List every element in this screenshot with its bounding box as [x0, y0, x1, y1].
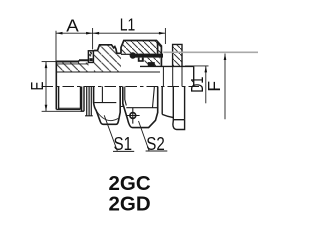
o-ring dot [130, 52, 136, 58]
thread bottom view [56, 87, 84, 112]
dimension D1 [185, 66, 209, 103]
locknut S2 section hatch [121, 41, 161, 54]
hex S2 bottom view [123, 87, 158, 128]
washer section outline [173, 44, 182, 66]
stud thread boundary [163, 66, 182, 86]
hex S1 chamfer arc [97, 112, 119, 121]
hex S2 face edges [125, 87, 158, 108]
underline S1 [113, 150, 134, 152]
dimension L1 [93, 28, 166, 44]
centerline [42, 86, 200, 88]
body section outline [94, 45, 121, 54]
o-ring bottom view [173, 120, 185, 130]
svg-text:A: A [66, 16, 79, 36]
washer section hatch [173, 44, 182, 66]
left thread section outline [56, 60, 88, 61]
groove between hexes [120, 87, 123, 107]
locknut S2 outline [121, 41, 161, 67]
leader S2 [139, 121, 150, 151]
svg-text:F: F [204, 81, 224, 92]
stud right face [193, 66, 195, 86]
svg-text:L1: L1 [120, 15, 136, 35]
hex S1 face edge [94, 87, 116, 103]
body section hatch [94, 45, 121, 72]
svg-text:E: E [27, 82, 47, 91]
dimension F [224, 54, 226, 120]
stud thread top line [140, 65, 194, 67]
thread root line [57, 63, 88, 65]
clearance step [138, 58, 144, 62]
thread root bottom line [59, 107, 81, 109]
svg-text:S1: S1 [114, 133, 133, 154]
washer bottom view [162, 87, 184, 120]
leader S1 [104, 115, 117, 151]
left thread wall hatch [56, 63, 88, 73]
dimension E [42, 62, 83, 112]
dimension A [56, 28, 93, 62]
orientation mark [130, 113, 136, 119]
svg-text:2GD: 2GD [109, 193, 151, 216]
underline S2 [146, 150, 168, 152]
svg-text:S2: S2 [146, 133, 165, 154]
washer bar black [132, 54, 164, 58]
body under-nut hatch [145, 58, 161, 67]
seal washer stack bottom view [85, 87, 93, 116]
gray port line [163, 51, 258, 53]
bore line [56, 71, 160, 73]
captive seal block [88, 51, 93, 63]
hex S1 bottom view [94, 87, 121, 125]
nut thread engagement block [148, 62, 155, 66]
